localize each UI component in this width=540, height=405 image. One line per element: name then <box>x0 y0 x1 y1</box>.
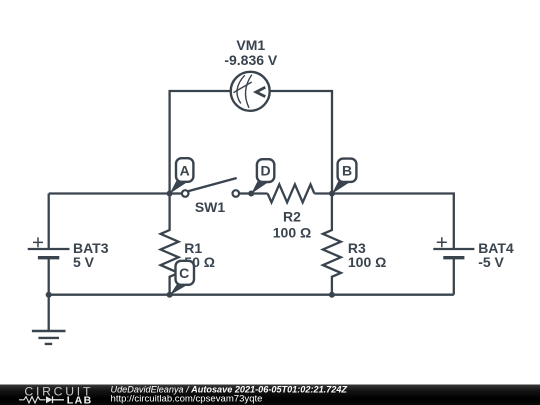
battery BAT4 plate negative <box>443 256 464 259</box>
node A box <box>176 158 193 182</box>
node D box <box>257 159 274 182</box>
voltmeter VM1 V glyph <box>256 87 265 96</box>
wire top-left (node A up to voltmeter) <box>170 91 231 194</box>
svg-text:5 V: 5 V <box>73 254 95 270</box>
svg-text:C: C <box>179 265 189 281</box>
wire left rail below BAT3 <box>48 258 50 295</box>
node C box <box>176 261 195 285</box>
svg-text:D: D <box>261 163 271 179</box>
svg-text:LAB: LAB <box>67 394 92 405</box>
wire node D to R2 <box>251 192 267 194</box>
logo diode <box>46 396 53 403</box>
voltmeter VM1 gauge arc left <box>237 75 245 103</box>
wire node B to right rail <box>332 194 454 250</box>
wire left rail top <box>48 194 50 250</box>
node B box <box>338 159 357 182</box>
node A pointer <box>170 181 187 194</box>
battery BAT4 plate positive <box>433 248 474 250</box>
footer bar <box>0 385 540 405</box>
wire ground stem <box>48 295 50 331</box>
ground <box>32 331 66 344</box>
battery BAT3 plate negative <box>38 256 59 259</box>
logo diode bar <box>53 396 65 403</box>
node junction dot D <box>248 191 254 197</box>
node C pointer <box>170 283 191 295</box>
svg-text:B: B <box>342 162 352 178</box>
junction dot R3 bottom <box>329 292 335 298</box>
node B pointer <box>332 181 350 194</box>
svg-text:VM1: VM1 <box>236 37 265 53</box>
switch SW1 lever <box>188 178 237 191</box>
switch SW1 terminal circle right <box>233 190 240 197</box>
resistor R1 <box>161 194 179 295</box>
svg-text:SW1: SW1 <box>195 199 226 215</box>
node junction dot A <box>167 191 173 197</box>
wire node A to switch <box>170 192 183 194</box>
battery BAT3 plus sign <box>33 237 43 247</box>
voltmeter VM1 needle <box>233 82 251 93</box>
wire bottom <box>49 294 454 296</box>
switch SW1 terminal circle left <box>182 190 189 197</box>
wire row left (left rail to node A) <box>49 192 170 194</box>
junction dot R1 bottom (node C) <box>167 292 173 298</box>
svg-text:-9.836 V: -9.836 V <box>224 52 278 68</box>
junction dot bottom left <box>46 292 52 298</box>
node junction dot B <box>329 191 335 197</box>
battery BAT3 plate positive <box>28 248 70 250</box>
resistor R2 <box>268 184 315 202</box>
wire R2 to node B <box>314 192 332 194</box>
svg-text:R2: R2 <box>283 209 301 225</box>
voltmeter VM1 gauge arc right <box>245 75 251 108</box>
wire top-right (voltmeter to node B) <box>270 91 332 194</box>
svg-text:-5 V: -5 V <box>478 254 504 270</box>
svg-text:100 Ω: 100 Ω <box>348 254 386 270</box>
logo resistor squiggle <box>19 397 46 403</box>
battery BAT4 plus sign <box>437 237 447 247</box>
voltmeter VM1 body <box>231 72 270 111</box>
svg-text:http://circuitlab.com/cpsevam7: http://circuitlab.com/cpsevam73yqte <box>111 394 263 404</box>
wire switch to node D <box>239 192 252 194</box>
resistor R3 <box>323 194 341 295</box>
svg-text:A: A <box>180 162 190 178</box>
node D pointer <box>251 181 268 194</box>
wire right rail below BAT4 <box>453 258 455 295</box>
svg-text:100 Ω: 100 Ω <box>273 224 311 240</box>
